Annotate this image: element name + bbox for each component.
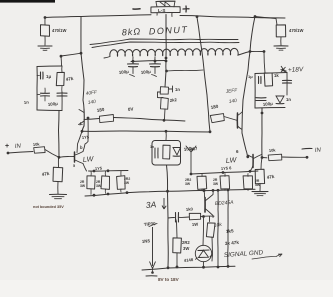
svg-text:b: b bbox=[80, 145, 83, 150]
svg-text:1μ: 1μ bbox=[46, 74, 51, 79]
svg-text:3W: 3W bbox=[124, 181, 130, 185]
svg-text:470/1W: 470/1W bbox=[52, 28, 66, 33]
svg-text:5: 5 bbox=[73, 164, 75, 168]
svg-text:4148: 4148 bbox=[184, 257, 194, 263]
svg-text:3W: 3W bbox=[213, 182, 219, 186]
svg-text:3W: 3W bbox=[183, 246, 189, 251]
svg-text:140: 140 bbox=[87, 99, 96, 106]
svg-text:1Y5: 1Y5 bbox=[82, 134, 90, 140]
svg-text:1Y5 6: 1Y5 6 bbox=[221, 165, 233, 171]
svg-text:1n: 1n bbox=[175, 87, 180, 92]
svg-text:1W: 1W bbox=[192, 222, 199, 227]
svg-text:1k0: 1k0 bbox=[186, 206, 194, 212]
svg-text:1n: 1n bbox=[150, 145, 154, 149]
svg-text:140: 140 bbox=[228, 98, 237, 105]
svg-text:10k: 10k bbox=[33, 141, 41, 147]
svg-text:1k5: 1k5 bbox=[226, 228, 235, 234]
svg-text:1k: 1k bbox=[274, 73, 279, 78]
svg-text:2R2: 2R2 bbox=[182, 240, 190, 245]
svg-text:470/1W: 470/1W bbox=[289, 28, 303, 33]
svg-text:3W: 3W bbox=[96, 184, 102, 188]
svg-text:1n: 1n bbox=[286, 97, 291, 102]
svg-text:DONUT: DONUT bbox=[149, 24, 189, 36]
svg-text:1μ: 1μ bbox=[248, 74, 253, 79]
svg-text:+18V: +18V bbox=[288, 66, 304, 74]
svg-text:8kΩ: 8kΩ bbox=[121, 26, 141, 37]
svg-text:3W: 3W bbox=[185, 182, 191, 186]
svg-text:not bounded 35V: not bounded 35V bbox=[33, 205, 64, 209]
svg-text:8V to 18V: 8V to 18V bbox=[158, 277, 180, 282]
svg-text:2k2: 2k2 bbox=[169, 97, 177, 103]
svg-text:10k: 10k bbox=[269, 147, 277, 153]
svg-text:1N5: 1N5 bbox=[142, 238, 151, 244]
svg-text:3W: 3W bbox=[80, 184, 86, 188]
svg-text:+: + bbox=[5, 143, 9, 150]
svg-text:1Y5: 1Y5 bbox=[95, 165, 103, 171]
svg-text:L-S: L-S bbox=[158, 8, 165, 13]
svg-text:3A: 3A bbox=[145, 199, 156, 210]
